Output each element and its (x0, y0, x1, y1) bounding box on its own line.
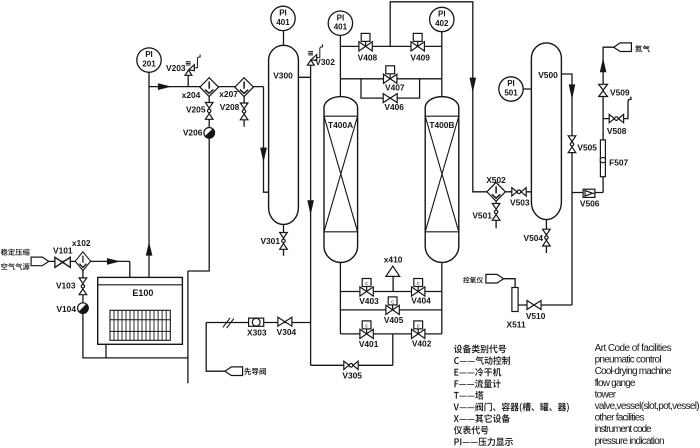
svg-text:V402: V402 (412, 339, 432, 349)
svg-text:x102: x102 (72, 238, 91, 248)
svg-text:V508: V508 (607, 126, 627, 136)
svg-text:V101: V101 (53, 246, 73, 256)
svg-text:F507: F507 (609, 158, 628, 168)
svg-text:V301: V301 (260, 236, 280, 246)
svg-text:V504: V504 (524, 233, 544, 243)
svg-text:V407: V407 (385, 82, 405, 92)
svg-text:c: c (391, 299, 394, 305)
svg-text:V409: V409 (410, 53, 430, 63)
svg-text:V505: V505 (577, 142, 597, 152)
svg-text:E100: E100 (132, 288, 153, 298)
svg-text:X303: X303 (247, 328, 267, 338)
svg-text:201: 201 (142, 60, 156, 69)
svg-text:V300: V300 (273, 71, 293, 81)
svg-text:x410: x410 (384, 254, 403, 264)
svg-text:V203: V203 (166, 63, 186, 73)
svg-text:V304: V304 (277, 327, 297, 337)
svg-text:PI: PI (279, 9, 287, 18)
svg-text:V208: V208 (220, 102, 240, 112)
svg-text:PI: PI (507, 79, 515, 88)
svg-text:x207: x207 (219, 89, 238, 99)
svg-text:Cool-drying machine: Cool-drying machine (595, 366, 672, 377)
svg-text:x204: x204 (182, 90, 201, 100)
svg-text:V205: V205 (186, 104, 206, 114)
svg-text:pneumatic control: pneumatic control (595, 355, 662, 366)
svg-text:X511: X511 (507, 319, 526, 329)
svg-text:X502: X502 (486, 175, 506, 185)
svg-text:401: 401 (276, 18, 290, 27)
svg-text:T400B: T400B (429, 120, 454, 130)
svg-text:V509: V509 (610, 88, 630, 98)
svg-text:valve,vessel(slot,pot,vessel): valve,vessel(slot,pot,vessel) (595, 401, 700, 412)
svg-text:PI: PI (145, 50, 153, 59)
svg-text:V104: V104 (56, 304, 76, 314)
svg-text:tower: tower (595, 389, 617, 400)
svg-text:V403: V403 (359, 296, 379, 306)
svg-text:402: 402 (435, 19, 449, 28)
svg-text:c: c (417, 281, 420, 287)
svg-text:V404: V404 (411, 295, 431, 305)
svg-text:c: c (365, 323, 368, 329)
svg-text:Art Code of facilities: Art Code of facilities (595, 343, 672, 354)
svg-text:V510: V510 (526, 311, 546, 321)
svg-text:flow gange: flow gange (595, 378, 636, 389)
svg-text:501: 501 (504, 88, 518, 97)
svg-text:V103: V103 (56, 280, 76, 290)
svg-text:instrument code: instrument code (595, 424, 652, 435)
svg-text:V401: V401 (359, 339, 379, 349)
svg-text:pressure indication: pressure indication (595, 436, 665, 447)
svg-text:401: 401 (334, 23, 348, 32)
svg-text:V406: V406 (384, 102, 404, 112)
svg-text:c: c (417, 323, 420, 329)
svg-text:V302: V302 (315, 57, 335, 67)
svg-text:V405: V405 (384, 315, 404, 325)
svg-text:V503: V503 (510, 197, 530, 207)
svg-text:V206: V206 (183, 128, 203, 138)
svg-text:T400A: T400A (328, 120, 353, 130)
svg-text:V305: V305 (342, 371, 362, 381)
svg-text:V501: V501 (472, 211, 492, 221)
svg-text:V500: V500 (538, 70, 558, 80)
svg-text:other facilities: other facilities (595, 413, 645, 424)
svg-text:V506: V506 (580, 198, 600, 208)
svg-text:PI: PI (337, 13, 345, 22)
svg-text:c: c (365, 281, 368, 287)
svg-text:PI: PI (438, 10, 446, 19)
svg-text:V408: V408 (358, 53, 378, 63)
